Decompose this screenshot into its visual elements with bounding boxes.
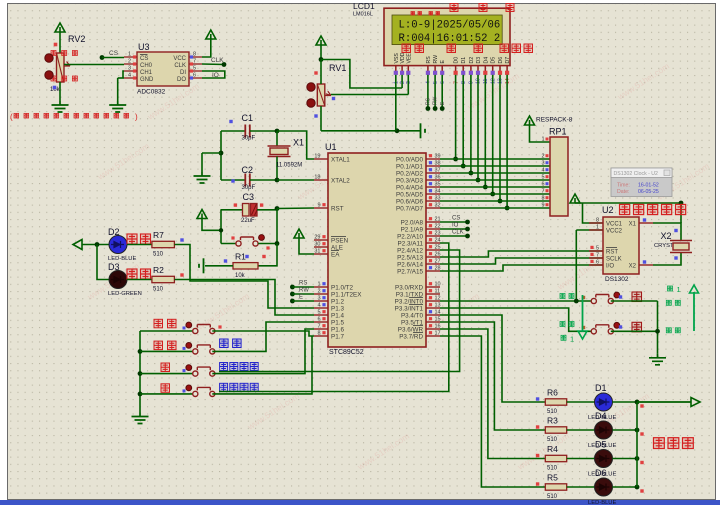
U1 pin 29 PSEN — [314, 239, 328, 241]
svg-text:P2.5/A13: P2.5/A13 — [397, 255, 423, 262]
LCD VEE wire — [407, 75, 409, 95]
U1 pin 17 P3.7/RD — [426, 335, 440, 337]
U1 pin 16 P3.6/WR — [426, 328, 440, 330]
svg-text:39: 39 — [435, 154, 441, 160]
reset button — [221, 243, 239, 245]
svg-text:R5: R5 — [547, 473, 558, 483]
svg-text:LCD1: LCD1 — [353, 1, 375, 11]
svg-text:8: 8 — [596, 218, 599, 224]
U2 pin 8 — [589, 222, 603, 224]
svg-text:5: 5 — [541, 175, 544, 181]
wire P0.5 to RP1 pin 7 — [440, 193, 550, 195]
svg-text:DS1302: DS1302 — [605, 276, 629, 283]
svg-text:CH0: CH0 — [140, 63, 153, 69]
svg-text:C1: C1 — [242, 113, 254, 123]
svg-text:CH1: CH1 — [140, 70, 153, 76]
U1 pin 27 P2.6/A14 — [426, 263, 440, 265]
wire P0.6 to RP1 pin 8 — [440, 200, 550, 202]
U1 pin 25 P2.4/A12 — [426, 249, 440, 251]
U1 pin 6 P1.5 — [314, 321, 328, 323]
wire R2 to P1.4 — [174, 280, 314, 316]
svg-text:(: ( — [10, 113, 13, 122]
probe dot RV2 top — [45, 54, 53, 62]
ADC U3 ADC0832 body — [137, 52, 189, 86]
power arrow VCC (U3) — [206, 30, 216, 39]
green arrow right (output) — [637, 401, 691, 403]
U1 pin 22 P2.1/A9 — [426, 228, 440, 230]
junction D7/P0.7 — [505, 206, 510, 211]
LCD VDD wire — [401, 75, 403, 88]
wire 加 to P1.6 — [212, 329, 314, 374]
svg-text:Time:: Time: — [617, 183, 630, 189]
svg-text:E: E — [440, 60, 446, 64]
svg-text:1: 1 — [317, 282, 320, 288]
U1 pin 31 EA — [314, 253, 328, 255]
net CLK (P2.2) — [440, 235, 468, 237]
LCD1 pin 14 D7 — [506, 66, 508, 71]
svg-text:STC89C52: STC89C52 — [329, 349, 364, 356]
junction RV1 top — [319, 57, 324, 62]
wire VCC U3 — [202, 39, 211, 57]
svg-text:36: 36 — [435, 175, 441, 181]
svg-text:D6: D6 — [595, 468, 607, 478]
svg-text:2: 2 — [541, 154, 544, 160]
svg-text:U2: U2 — [602, 205, 614, 215]
resistor R2 — [127, 279, 152, 281]
green anno 后外 — [560, 322, 565, 327]
svg-text:P1.7: P1.7 — [331, 334, 344, 341]
svg-text:30pF: 30pF — [242, 185, 256, 191]
U3 pin 4 — [124, 77, 137, 79]
U1 pin 24 P2.3/A11 — [426, 242, 440, 244]
red anno 内 — [632, 292, 642, 302]
svg-text:D5: D5 — [595, 440, 607, 450]
junction crystal top — [275, 129, 280, 134]
ground rail (LCD) — [420, 123, 422, 138]
U1 pin 39 P0.0/AD0 — [426, 158, 440, 160]
svg-text:LED-GREEN: LED-GREEN — [108, 291, 142, 297]
junction VSS gnd — [395, 128, 400, 133]
svg-text:X1: X1 — [293, 138, 304, 148]
svg-text:5: 5 — [596, 246, 599, 252]
wire P3.5 to R3 — [440, 322, 545, 430]
svg-text:27: 27 — [435, 259, 441, 265]
svg-text:D6: D6 — [498, 57, 504, 64]
junction crystal bottom / XTAL2 — [275, 178, 280, 183]
wire P3.6 to R4 — [440, 329, 545, 459]
U1 pin 3 P1.2 — [314, 300, 328, 302]
svg-text:P0.2/AD2: P0.2/AD2 — [396, 171, 423, 178]
wire D5 to common — [613, 458, 638, 460]
ground (button column) — [132, 413, 149, 424]
LCD1 pin 4 RS — [427, 66, 429, 71]
U1 pin 11 P3.1/TXD — [426, 293, 440, 295]
svg-text:30pF: 30pF — [242, 136, 256, 142]
svg-text:D2: D2 — [469, 57, 475, 64]
svg-text:22uF: 22uF — [241, 218, 255, 224]
wire to ground — [202, 152, 221, 154]
U1 pin 15 P3.5/T1 — [426, 321, 440, 323]
svg-text:): ) — [135, 113, 138, 122]
wire right junction down to ground — [657, 301, 659, 354]
junction D2/D3 — [95, 242, 100, 247]
wire X2 to crystal — [653, 253, 681, 266]
wire 内 right — [611, 300, 658, 302]
svg-text:P2.2/A10: P2.2/A10 — [397, 234, 423, 241]
svg-text:P1.1/T2EX: P1.1/T2EX — [331, 292, 362, 299]
svg-text:R:004|16:01:52 2: R:004|16:01:52 2 — [399, 33, 501, 45]
svg-text:P3.3/INT1: P3.3/INT1 — [395, 306, 424, 313]
wire CH1/GND to ground — [123, 71, 124, 78]
svg-text:9: 9 — [317, 203, 320, 209]
svg-text:RV2: RV2 — [68, 34, 85, 44]
wire RV1 bottom — [320, 106, 322, 131]
net CS (P2.0) — [440, 221, 468, 223]
svg-text:P1.5: P1.5 — [331, 320, 344, 327]
svg-text:14: 14 — [435, 310, 441, 316]
wire RP1 pin1 — [530, 125, 551, 142]
power arrow (RP1) — [525, 116, 535, 125]
svg-text:RS: RS — [299, 281, 307, 287]
svg-text:21: 21 — [435, 217, 441, 223]
U1 pin 12 P3.2/INT0 — [426, 300, 440, 302]
svg-text:XTAL2: XTAL2 — [331, 178, 350, 185]
svg-text:D1: D1 — [595, 383, 607, 393]
svg-text:23: 23 — [435, 231, 441, 237]
wire RV2 wiper to CH0 — [64, 64, 124, 66]
LCD E wire — [441, 75, 443, 109]
ground (RV2) — [52, 101, 69, 112]
svg-text:LED-BLUE: LED-BLUE — [588, 500, 616, 505]
junction reset/R1 — [275, 241, 280, 246]
U3 pin 3 — [124, 70, 137, 72]
wire 减 long to P2.3 column — [212, 336, 312, 394]
svg-text:4: 4 — [128, 73, 131, 79]
wire P3.3 to button 外 — [440, 308, 594, 331]
svg-text:RST: RST — [606, 250, 618, 256]
power arrow (EA) — [294, 229, 304, 238]
LCD1 pin 6 E — [441, 66, 443, 71]
svg-text:06-05-25: 06-05-25 — [638, 189, 659, 195]
U1 pin 26 P2.5/A13 — [426, 256, 440, 258]
svg-text:P0.3/AD3: P0.3/AD3 — [396, 178, 423, 185]
ground (U3) — [109, 101, 126, 112]
svg-text:R6: R6 — [547, 388, 558, 398]
potentiometer RV2 — [57, 53, 65, 82]
svg-text:15: 15 — [435, 317, 441, 323]
wire to R1 — [258, 244, 277, 266]
power arrow VCC (RV2 top) — [55, 23, 65, 32]
svg-text:Date:: Date: — [617, 189, 629, 195]
LCD1 pin 7 D0 — [455, 66, 457, 71]
svg-text:CS: CS — [140, 56, 148, 62]
green anno 加1 — [668, 286, 673, 291]
wire LCD D5 to P0.5 — [492, 75, 494, 194]
svg-text:RW: RW — [433, 55, 439, 64]
U1 pin 4 P1.3 — [314, 307, 328, 309]
wire LCD D3 to P0.3 — [477, 75, 479, 180]
svg-text:D0: D0 — [454, 57, 460, 64]
junction D4 common — [635, 428, 640, 433]
svg-text:D1: D1 — [461, 57, 467, 64]
U1 pin 34 P0.5/AD5 — [426, 193, 440, 195]
svg-text:P0.4/AD4: P0.4/AD4 — [396, 185, 423, 192]
wire XTAL1 — [277, 131, 314, 159]
red anno 外 — [632, 322, 642, 332]
svg-text:P0.7/AD7: P0.7/AD7 — [396, 206, 423, 213]
wire 外 right — [611, 330, 658, 332]
svg-text:R4: R4 — [547, 444, 558, 454]
button 内 — [591, 298, 596, 303]
svg-text:R1: R1 — [235, 251, 246, 261]
net IO loop DI-DO — [202, 71, 225, 78]
junction D6 common — [635, 485, 640, 490]
LCD VSS wire — [395, 75, 397, 131]
svg-text:16: 16 — [435, 324, 441, 330]
svg-text:P1.6: P1.6 — [331, 327, 344, 334]
U1 pin 33 P0.6/AD6 — [426, 200, 440, 202]
svg-text:3: 3 — [128, 66, 131, 72]
U1 pin 13 P3.3/INT1 — [426, 307, 440, 309]
wire down to X1 — [680, 203, 682, 223]
svg-text:ADC0832: ADC0832 — [137, 89, 166, 96]
svg-text:VCC1: VCC1 — [606, 222, 623, 228]
U1 pin 9 RST — [314, 207, 328, 209]
svg-text:VEE: VEE — [406, 53, 412, 64]
svg-text:510: 510 — [153, 252, 164, 258]
svg-text:E: E — [299, 295, 303, 301]
red anno 接备份电源 — [620, 204, 630, 214]
resistor R6 510 — [545, 399, 566, 405]
red anno 亮度灯光 small — [411, 12, 415, 16]
svg-text:LM016L: LM016L — [353, 12, 373, 18]
wire RV2 top — [59, 32, 61, 53]
green down arrow — [582, 295, 584, 332]
wire to D3 — [97, 245, 109, 280]
wire XTAL2 — [277, 179, 314, 181]
svg-text:16-01-52: 16-01-52 — [638, 183, 659, 189]
svg-text:17: 17 — [435, 331, 441, 337]
svg-text:510: 510 — [547, 437, 558, 443]
U1 pin 18 XTAL2 — [314, 179, 328, 181]
svg-text:1: 1 — [541, 137, 544, 143]
red anno 设置 — [154, 319, 163, 328]
svg-text:2: 2 — [317, 289, 320, 295]
svg-text:8: 8 — [541, 196, 544, 202]
svg-text:RESPACK-8: RESPACK-8 — [536, 117, 573, 124]
svg-text:1: 1 — [128, 52, 131, 58]
popup window DS1302 Clock - U2 — [611, 168, 672, 197]
LCD1 pin 11 D4 — [484, 66, 486, 71]
U3 pin 5 — [189, 70, 202, 72]
svg-text:11.0592M: 11.0592M — [276, 163, 302, 169]
svg-text:5: 5 — [193, 66, 196, 72]
svg-text:CLK: CLK — [174, 63, 186, 69]
svg-text:26: 26 — [435, 252, 441, 258]
junction D1/P0.1 — [461, 164, 466, 169]
svg-text:D3: D3 — [476, 57, 482, 64]
wire vcc reset — [202, 219, 221, 231]
U1 pin 7 P1.6 — [314, 328, 328, 330]
wire VCC2 down — [575, 230, 577, 301]
resistor R4 510 — [545, 455, 566, 461]
svg-text:34: 34 — [435, 189, 441, 195]
probe dots RV1 — [307, 83, 315, 91]
red anno 人数 时 分 秒星期 — [402, 44, 411, 53]
svg-text:29: 29 — [314, 235, 320, 241]
svg-text:30: 30 — [314, 242, 320, 248]
svg-text:P0.0/AD0: P0.0/AD0 — [396, 157, 423, 164]
wire P0.4 to RP1 pin 6 — [440, 186, 550, 188]
RS net to P1.0 — [290, 285, 295, 290]
wire R3 to D4 — [567, 429, 595, 431]
svg-text:R7: R7 — [153, 230, 164, 240]
svg-text:37: 37 — [435, 168, 441, 174]
svg-text:RS: RS — [426, 56, 432, 64]
wire P2.3 down to 减 row — [219, 243, 449, 392]
wire to D2 — [82, 244, 109, 246]
svg-text:D7: D7 — [505, 57, 511, 64]
button 加 — [140, 373, 195, 375]
wire 确认 to P1.5 — [212, 322, 314, 351]
svg-text:CLK: CLK — [211, 57, 224, 64]
wire LCD D0 to P0.0 — [455, 75, 457, 159]
svg-text:8: 8 — [317, 331, 320, 337]
red anno 手动 — [127, 269, 137, 279]
wire R1 to gnd rail — [205, 265, 233, 267]
svg-text:CS: CS — [109, 50, 119, 57]
LCD1 pin 12 D5 — [492, 66, 494, 71]
U1 pin 21 P2.0/A8 — [426, 221, 440, 223]
U1 pin 37 P0.2/AD2 — [426, 172, 440, 174]
U1 pin 38 P0.1/AD1 — [426, 165, 440, 167]
svg-text:CS: CS — [452, 216, 460, 222]
red anno 照明灯 — [654, 438, 665, 449]
svg-text:P2.6/A14: P2.6/A14 — [397, 262, 423, 269]
svg-text:D5: D5 — [491, 57, 497, 64]
power arrow (C3) — [197, 210, 207, 219]
svg-text:32: 32 — [435, 203, 441, 209]
junction D5/P0.5 — [490, 192, 495, 197]
svg-text:510: 510 — [153, 287, 164, 293]
LCD1 pin 13 D6 — [499, 66, 501, 71]
U1 pin 23 P2.2/A10 — [426, 235, 440, 237]
power arrow (DS1302 VCC1) — [570, 194, 580, 203]
U3 pin 2 — [124, 63, 137, 65]
junction D1 common — [635, 400, 640, 405]
junction gnd tap — [219, 151, 224, 156]
wire RV1 wiper to VEE — [331, 94, 408, 96]
svg-text:I/O: I/O — [606, 264, 614, 270]
net CLK terminal — [202, 63, 224, 66]
svg-text:510: 510 — [547, 409, 558, 415]
blue anno 切换 — [220, 339, 229, 348]
green anno 先内 — [560, 294, 565, 299]
wire CS to U3 pin1 — [102, 57, 124, 59]
svg-text:P1.4: P1.4 — [331, 313, 344, 320]
red anno 加 — [161, 363, 170, 372]
svg-text:1: 1 — [677, 285, 681, 294]
E net to P1.2 — [290, 299, 295, 304]
resistor R7 — [127, 244, 152, 246]
svg-text:10: 10 — [435, 282, 441, 288]
U1 pin 1 P1.0/T2 — [314, 286, 328, 288]
svg-text:3: 3 — [317, 296, 320, 302]
svg-text:P2.4/A12: P2.4/A12 — [397, 248, 423, 255]
svg-text:P1.0/T2: P1.0/T2 — [331, 285, 354, 292]
svg-text:IO: IO — [212, 72, 219, 79]
ground (buttons 内外) — [649, 354, 666, 365]
red anno 自动 — [127, 234, 137, 244]
svg-text:P2.7/A15: P2.7/A15 — [397, 269, 423, 276]
svg-text:CLK: CLK — [452, 230, 464, 236]
svg-text:D4: D4 — [483, 57, 489, 64]
svg-text:P2.1/A9: P2.1/A9 — [401, 227, 424, 234]
svg-text:VSS: VSS — [394, 53, 400, 64]
net CS terminal — [100, 55, 105, 60]
junction D6/P0.6 — [498, 199, 503, 204]
svg-text:28: 28 — [435, 266, 441, 272]
U1 pin 5 P1.4 — [314, 314, 328, 316]
svg-text:31: 31 — [314, 249, 320, 255]
wire D1 to common — [613, 401, 638, 403]
svg-text:7: 7 — [541, 189, 544, 195]
svg-text:2: 2 — [128, 59, 131, 65]
junction D4/P0.4 — [483, 185, 488, 190]
svg-text:C3: C3 — [243, 192, 255, 202]
green anno 减1 — [561, 335, 566, 340]
RW net to P1.1 — [290, 292, 295, 297]
wire D4 to common — [613, 429, 638, 431]
wire VCC1 — [583, 203, 604, 223]
wire LCD D6 to P0.6 — [499, 75, 501, 201]
U1 pin 10 P3.0/RXD — [426, 286, 440, 288]
wire P2.4 down to 加 row — [219, 250, 460, 372]
wire X1 to crystal — [653, 223, 681, 241]
svg-text:6: 6 — [317, 317, 320, 323]
svg-text:P0.5/AD5: P0.5/AD5 — [396, 192, 423, 199]
wire R6 to D1 — [567, 401, 595, 403]
svg-text:RP1: RP1 — [549, 127, 567, 137]
svg-text:D4: D4 — [595, 411, 607, 421]
button 确认 — [140, 350, 195, 352]
svg-text:6: 6 — [596, 260, 599, 266]
LCD1 pin 2 VDD — [401, 66, 403, 71]
wires P2.5-P2.7 to DS1302 — [440, 251, 603, 257]
green up arrow — [693, 292, 695, 331]
svg-text:1: 1 — [596, 225, 599, 231]
svg-text:P2.0/A8: P2.0/A8 — [401, 220, 424, 227]
U1 pin 19 XTAL1 — [314, 158, 328, 160]
svg-text:R2: R2 — [153, 265, 164, 275]
wire P0.3 to RP1 pin 5 — [440, 179, 550, 181]
resistor R3 510 — [545, 427, 566, 433]
U1 pin 36 P0.3/AD3 — [426, 179, 440, 181]
svg-text:X1: X1 — [629, 222, 637, 228]
svg-text:4: 4 — [541, 168, 544, 174]
U3 pin 6 — [189, 77, 202, 79]
svg-text:P3.7/RD: P3.7/RD — [399, 334, 423, 341]
wire D6 to common — [613, 486, 638, 488]
svg-text:4: 4 — [317, 303, 320, 309]
svg-text:33: 33 — [435, 196, 441, 202]
wire P0.7 to RP1 pin 9 — [440, 207, 550, 209]
U1 pin 30 ALE — [314, 246, 328, 248]
wire LED common vertical — [636, 402, 638, 487]
svg-text:P0.6/AD6: P0.6/AD6 — [396, 199, 423, 206]
svg-text:5: 5 — [317, 310, 320, 316]
label 光线暗 — [51, 51, 56, 56]
